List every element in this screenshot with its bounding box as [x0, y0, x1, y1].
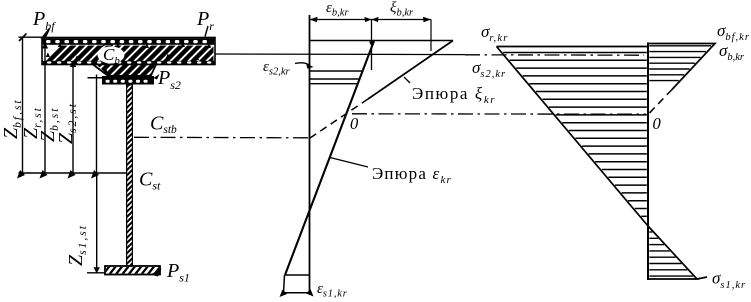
strain diagram axis — [309, 15, 311, 293]
C_b white circle — [98, 47, 125, 64]
eps_s1 bottom box — [285, 274, 310, 276]
rotated label Z_b,st — [37, 107, 61, 142]
big triangle hatch — [503, 53, 647, 217]
big triangle outline — [497, 47, 649, 227]
dimension vertical Z_bf,st — [22, 37, 24, 173]
wire: rebar level connector to right (solid) — [215, 53, 465, 56]
top edge of strain diagrams — [310, 40, 454, 42]
rotated label Z_s1,st — [65, 224, 89, 266]
dimension vertical Z_r,st — [44, 43, 46, 174]
top dimension baseline — [19, 36, 43, 38]
steel bottom flange P_s1 — [105, 266, 160, 275]
top dimension line — [310, 19, 432, 21]
steel top flange P_s2 — [102, 76, 154, 85]
small top triangle hatch — [649, 46, 711, 81]
xi hypotenuse solid — [368, 41, 453, 100]
slab bottom rebar band — [43, 61, 215, 65]
xi hypotenuse dashed — [310, 99, 368, 138]
epsilon line — [285, 41, 374, 275]
eps_s2 level lines — [310, 70, 363, 72]
label Epure xi_kr with leader — [404, 77, 410, 83]
dimension vertical Z_s1,st — [96, 173, 98, 273]
slab top rebar band — [43, 38, 215, 45]
svg-text:Эпюра ξkr: Эпюра ξkr — [412, 84, 496, 106]
rotated label Z_r,st — [20, 106, 44, 139]
dash-dot C_stb centroid line — [134, 136, 310, 139]
concrete slab outline — [42, 38, 215, 65]
bottom dimension baseline at C_st level — [19, 172, 127, 174]
label Epure eps_kr with leader — [330, 158, 368, 168]
svg-text:0: 0 — [653, 114, 662, 133]
rotated label Z_bf,st — [0, 98, 24, 139]
small top triangle outline — [648, 44, 715, 90]
lower triangle hatch — [649, 232, 693, 276]
svg-text:0: 0 — [350, 114, 359, 133]
P_bf arrow to slab corner — [43, 29, 50, 38]
stress diagram axis — [647, 43, 649, 281]
dimension vertical Z_s2,st with top tick — [96, 75, 98, 174]
steel web — [126, 85, 133, 267]
dash-dot continuation sigma_r level — [465, 54, 644, 56]
svg-text:Эпюра εkr: Эпюра εkr — [372, 164, 452, 186]
lower triangle outline — [648, 226, 707, 279]
rotated label Z_s2,st — [55, 102, 79, 144]
slab aggregate marks — [46, 52, 50, 57]
dimension vertical Z_b,st — [72, 62, 74, 174]
slab haunch — [93, 65, 156, 76]
zero dash-dot neutral axis line — [352, 113, 646, 115]
